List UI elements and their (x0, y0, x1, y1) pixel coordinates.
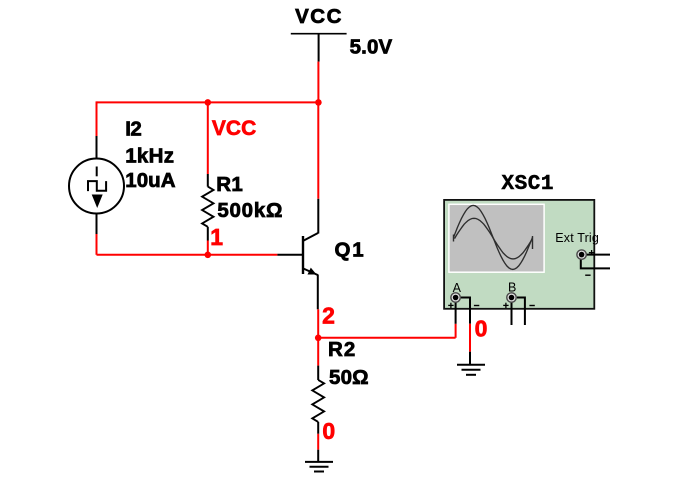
wire emitter to node 2 (317, 309, 319, 338)
scope trace big (454, 205, 533, 269)
I2 pulse glyph (88, 181, 106, 191)
pin Q1 base (277, 254, 303, 256)
wire A minus to ground (469, 324, 471, 352)
trace end ticks (454, 235, 533, 250)
pin I2 bottom (96, 214, 98, 235)
channel B plus pin (511, 302, 513, 325)
svg-text:500kΩ: 500kΩ (217, 199, 282, 222)
channel B plus sign (503, 303, 508, 308)
svg-text:5.0V: 5.0V (350, 35, 393, 58)
pin Q1 emitter (317, 275, 319, 310)
ground symbol 2 (457, 365, 485, 375)
wire R2 bottom to ground (317, 434, 319, 450)
ext trig minus sign (585, 274, 590, 276)
svg-text:0: 0 (475, 316, 488, 342)
pin Q1 collector (317, 199, 319, 234)
ground pin below R2 (317, 450, 319, 462)
junction bottom rail / R1 (205, 252, 212, 259)
svg-text:10uA: 10uA (125, 169, 176, 192)
scope trace small (455, 218, 533, 259)
wire I2 bottom to bottom rail (96, 234, 98, 255)
ground pin scope (469, 352, 471, 365)
scope screen (449, 204, 544, 272)
wire VCC stem to top rail (317, 62, 319, 103)
svg-text:VCC: VCC (295, 5, 341, 28)
wire node 2 to scope (318, 337, 455, 339)
wire node 2 down to R2 (317, 338, 319, 366)
current source I2 circle (69, 159, 124, 214)
ground symbol 1 (305, 462, 333, 472)
channel B minus hook (517, 298, 525, 326)
wire top rail horizontal (97, 101, 319, 103)
channel A minus hook (461, 298, 470, 324)
ext trig pin minus (581, 259, 610, 269)
transistor Q1 (303, 233, 318, 275)
svg-text:1kHz: 1kHz (125, 145, 174, 168)
svg-text:2: 2 (322, 303, 335, 329)
svg-text:R1: R1 (216, 173, 243, 196)
channel B minus sign (529, 305, 534, 307)
connector A (451, 293, 460, 302)
wire scope A+ riser (455, 324, 457, 338)
junction node 2 (315, 335, 322, 342)
svg-text:1: 1 (210, 224, 223, 250)
svg-text:R2: R2 (328, 338, 355, 361)
svg-text:0: 0 (322, 418, 335, 444)
wire left branch down to I2 (96, 101, 98, 136)
svg-text:50Ω: 50Ω (329, 366, 369, 389)
resistor R2 (312, 366, 324, 434)
wire collector red (317, 102, 319, 198)
wire R1 branch upper (207, 101, 209, 174)
ext trig plus sign (589, 250, 594, 255)
I2 dashed direction line top (96, 167, 98, 177)
ext trig connector (577, 250, 586, 259)
svg-text:Q1: Q1 (335, 239, 364, 262)
channel A minus sign (474, 305, 479, 307)
connector B (507, 293, 516, 302)
ext trig pin plus (586, 254, 610, 256)
svg-text:I2: I2 (125, 118, 142, 141)
svg-text:Ext Trig: Ext Trig (555, 231, 599, 245)
svg-text:XSC1: XSC1 (502, 173, 554, 196)
channel A plus sign (448, 303, 453, 308)
wire bottom rail horizontal (97, 254, 278, 256)
I2 arrow down (92, 195, 103, 209)
svg-text:VCC: VCC (212, 117, 256, 140)
channel A plus pin (455, 302, 457, 324)
junction top rail / VCC (315, 99, 322, 106)
power symbol VCC (291, 34, 347, 62)
junction top rail / R1 (205, 99, 212, 106)
pin I2 top (96, 136, 98, 159)
resistor R1 (202, 174, 213, 241)
wire R1 bottom stub (207, 241, 209, 255)
oscilloscope XSC1 body (444, 200, 594, 309)
